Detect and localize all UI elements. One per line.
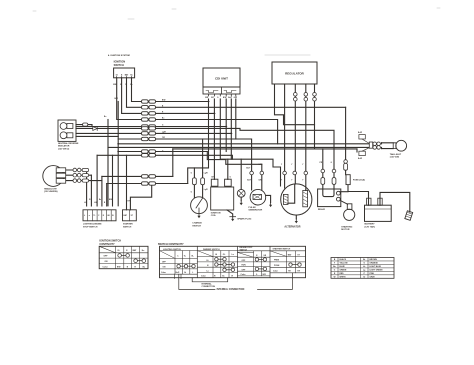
- svg-text:SWITCH CONTINUITY: SWITCH CONTINUITY: [158, 243, 184, 246]
- starting motor: [341, 204, 355, 231]
- svg-text:LIGHTING,ENGINE: LIGHTING,ENGINE: [83, 224, 102, 226]
- svg-text:Color: Color: [241, 274, 246, 276]
- svg-text:G: G: [230, 177, 232, 179]
- switch continuity table: [158, 243, 306, 278]
- svg-text:E: E: [256, 255, 258, 257]
- svg-text:W: W: [334, 276, 336, 278]
- svg-text:ST: ST: [297, 254, 300, 256]
- svg-text:Lg/R: Lg/R: [204, 189, 209, 191]
- svg-text:Bu: Bu: [99, 199, 101, 201]
- svg-text:Lo: Lo: [232, 254, 235, 256]
- svg-text:Y/R: Y/R: [288, 271, 292, 273]
- alternator: [281, 184, 312, 229]
- svg-text:TL: TL: [93, 215, 95, 217]
- svg-text:REGULATOR: REGULATOR: [285, 71, 305, 75]
- svg-text:SWITCH: SWITCH: [123, 227, 132, 229]
- fuse: [346, 175, 365, 185]
- wire regulator pin4: [305, 84, 307, 190]
- svg-text:Ho: Ho: [142, 250, 145, 252]
- svg-text:RELAY: RELAY: [318, 208, 326, 211]
- coil ground arrow: [231, 217, 234, 222]
- wire row9: [97, 155, 280, 186]
- svg-text:G: G: [256, 274, 258, 276]
- svg-text:PUSH: PUSH: [274, 265, 280, 267]
- svg-text:C: C: [98, 215, 100, 217]
- svg-text:G/W: G/W: [234, 97, 238, 99]
- diode symbol: [93, 127, 97, 131]
- svg-text:B/W: B/W: [113, 84, 117, 86]
- svg-text:Y: Y: [281, 164, 283, 166]
- wire regulator pin2: [284, 84, 286, 188]
- wire headlight lo: [64, 174, 91, 176]
- relay lead connectors: [321, 178, 336, 185]
- svg-text:PULSE: PULSE: [248, 207, 256, 209]
- svg-text:G: G: [191, 173, 193, 175]
- svg-text:B/W: B/W: [109, 199, 113, 201]
- svg-text:E: E: [103, 215, 105, 217]
- svg-text:N: N: [207, 265, 209, 267]
- svg-text:Bu/Y: Bu/Y: [246, 168, 251, 170]
- svg-text:ST: ST: [131, 215, 134, 217]
- wire pulse drop2: [261, 164, 263, 190]
- spark plug label: [237, 217, 251, 220]
- wire CDI pin5: [230, 99, 232, 159]
- svg-text:Gr: Gr: [363, 276, 365, 278]
- svg-text:Color: Color: [161, 272, 166, 274]
- svg-text:HE: HE: [108, 215, 110, 217]
- svg-text:Bu: Bu: [104, 116, 106, 118]
- wire regulator pin5: [314, 84, 316, 149]
- wire colour labels: [104, 98, 167, 152]
- ignition coil: [211, 177, 234, 218]
- svg-text:B/W: B/W: [117, 266, 121, 268]
- svg-text:Br: Br: [184, 272, 186, 274]
- internal connection bracket small: [175, 274, 228, 288]
- wire CDI pin2: [213, 99, 215, 179]
- wire vert x172.8: [172, 149, 174, 177]
- svg-text:G: G: [331, 162, 333, 164]
- svg-text:BROWN: BROWN: [370, 259, 378, 261]
- svg-text:a: a: [89, 215, 91, 217]
- svg-text:R: R: [135, 266, 137, 268]
- svg-text:CONNECTION: CONNECTION: [202, 286, 216, 288]
- svg-text:CHANGE: CHANGE: [192, 221, 202, 224]
- starter cable connector: [405, 211, 413, 221]
- wire taillight feeds: [357, 143, 382, 152]
- svg-text:STARTER: STARTER: [123, 223, 133, 226]
- wire row7 to CDI pin6: [118, 139, 251, 190]
- svg-text:B/W: B/W: [263, 274, 267, 276]
- wire CDI pin4: [225, 99, 227, 152]
- svg-text:SWITCH: SWITCH: [114, 63, 124, 67]
- svg-text:Hi: Hi: [215, 254, 217, 256]
- svg-text:Ho: Ho: [130, 74, 133, 76]
- svg-text:YELLOW: YELLOW: [340, 263, 348, 265]
- svg-text:C: C: [177, 255, 179, 257]
- svg-text:INTERNAL CONNECTION: INTERNAL CONNECTION: [217, 288, 245, 291]
- wire indicator row 128: [76, 128, 334, 189]
- svg-text:(12V 3W×2): (12V 3W×2): [58, 147, 69, 150]
- regulator pin connectors: [294, 93, 317, 101]
- svg-text:BAT: BAT: [124, 214, 128, 217]
- battery: [365, 198, 392, 228]
- wire coil right pin: [227, 159, 229, 179]
- svg-text:Bu: Bu: [222, 276, 224, 278]
- svg-text:Bu: Bu: [143, 266, 145, 268]
- svg-text:TL: TL: [184, 255, 187, 257]
- wire battery terminal right: [379, 198, 381, 205]
- wire CDI pin1: [194, 99, 208, 168]
- wire fuse junction left: [340, 191, 348, 193]
- mid bullet connectors: [246, 160, 347, 182]
- wire starter sw riser: [130, 184, 151, 210]
- svg-text:BLACK: BLACK: [340, 258, 347, 261]
- wire regulator pin3: [294, 84, 296, 184]
- wire indicator row5: [76, 126, 226, 128]
- wire colour legend table: [331, 258, 394, 279]
- svg-text:W: W: [89, 199, 91, 201]
- svg-text:TAILLIGHT: TAILLIGHT: [390, 153, 402, 156]
- svg-text:BLUE: BLUE: [340, 266, 346, 268]
- headlight: [43, 166, 66, 194]
- svg-text:RUN: RUN: [242, 265, 247, 267]
- wire indicator row5b: [76, 123, 92, 127]
- svg-text:Bu: Bu: [130, 84, 132, 86]
- svg-text:Lo: Lo: [207, 270, 210, 272]
- relay: [318, 189, 348, 211]
- svg-text:HEADLIGHT: HEADLIGHT: [44, 187, 57, 190]
- wire taillight bus lower: [108, 146, 369, 148]
- svg-text:Bu: Bu: [162, 118, 164, 120]
- svg-text:OFF: OFF: [104, 256, 109, 258]
- svg-text:B/W: B/W: [115, 98, 119, 100]
- wire relay coil feed1: [322, 149, 324, 189]
- svg-text:OFF: OFF: [162, 261, 167, 263]
- neutral reverse indicator lamps: [58, 120, 79, 150]
- svg-text:G: G: [217, 97, 219, 99]
- wire indicator row6: [76, 132, 231, 134]
- svg-text:BAT: BAT: [133, 249, 138, 252]
- internal connection bracket large: [179, 273, 293, 291]
- svg-text:B/W: B/W: [223, 97, 227, 99]
- wire headlight hi: [64, 169, 87, 171]
- svg-text:GRAY: GRAY: [370, 275, 376, 278]
- svg-text:E: E: [126, 250, 128, 252]
- svg-text:SWITCH: SWITCH: [240, 249, 248, 251]
- wire regulator pin1: [275, 84, 315, 125]
- wire ignition IG to bus row1: [132, 78, 209, 102]
- taillight: [382, 140, 407, 158]
- svg-text:IG: IG: [118, 250, 121, 252]
- svg-text:BATTERY: BATTERY: [365, 223, 376, 226]
- svg-text:Bu/R: Bu/R: [176, 272, 181, 274]
- svg-text:Hi: Hi: [207, 260, 209, 262]
- change switch ground: [197, 214, 200, 219]
- lighting engine stop switch: [83, 199, 116, 229]
- svg-text:Y: Y: [302, 180, 304, 182]
- svg-text:Y: Y: [291, 180, 293, 182]
- svg-text:FUSE (15A): FUSE (15A): [353, 179, 365, 182]
- junction dots: [118, 101, 233, 152]
- svg-text:INDICATOR: INDICATOR: [58, 145, 70, 148]
- wire ignition E to long bus row2: [127, 78, 346, 108]
- svg-text:STOP SWITCH: STOP SWITCH: [83, 227, 98, 229]
- svg-text:GENERATOR: GENERATOR: [248, 209, 262, 212]
- svg-text:GREEN: GREEN: [340, 270, 347, 272]
- ignition switch S1: [113, 60, 134, 86]
- change switch: [191, 197, 208, 228]
- wire taillight bus upper: [118, 143, 369, 145]
- svg-text:OL: OL: [223, 254, 226, 256]
- svg-text:Br/W: Br/W: [358, 158, 362, 160]
- svg-text:Color: Color: [103, 266, 108, 268]
- wire indicator row7: [76, 135, 118, 137]
- svg-text:Bu/Y: Bu/Y: [228, 97, 233, 99]
- svg-text:B: B: [127, 266, 129, 268]
- svg-text:G/W: G/W: [258, 180, 262, 182]
- ignition switch continuity table: [99, 240, 148, 269]
- svg-text:Y: Y: [302, 164, 304, 166]
- svg-text:CDI UNIT: CDI UNIT: [215, 76, 228, 80]
- svg-text:ALTERNATOR: ALTERNATOR: [284, 226, 300, 229]
- wire CDI pin6: [235, 99, 237, 139]
- svg-text:OL: OL: [191, 255, 194, 257]
- svg-text:Y/R: Y/R: [297, 271, 301, 273]
- svg-text:Br/W: Br/W: [358, 132, 362, 134]
- svg-text:MOTOR: MOTOR: [341, 229, 350, 231]
- svg-text:ON: ON: [105, 261, 109, 263]
- scan marks: [33, 8, 440, 57]
- ignition coil ground lead: [227, 210, 236, 217]
- wire row conn176: [102, 175, 173, 177]
- wire switch risers: [87, 155, 113, 206]
- svg-text:STARTER SWITCH: STARTER SWITCH: [273, 247, 291, 250]
- wire change sw right: [202, 139, 204, 198]
- svg-text:B: B: [104, 202, 106, 204]
- svg-text:E: E: [121, 74, 123, 76]
- svg-text:4. IGNITION SYSTEM: 4. IGNITION SYSTEM: [108, 54, 130, 57]
- svg-text:G/W: G/W: [258, 164, 262, 166]
- svg-text:Lg/R: Lg/R: [204, 173, 209, 175]
- spark plug ground: [240, 201, 243, 206]
- wire pulse branch: [207, 152, 261, 165]
- wire ignition Ho to bus row4: [117, 78, 278, 144]
- wire fuse to junction: [348, 185, 369, 206]
- svg-text:PINK: PINK: [370, 273, 375, 275]
- svg-text:L: L: [84, 215, 86, 217]
- svg-text:Y: Y: [281, 180, 283, 182]
- wire branch down lighting switch: [107, 120, 109, 206]
- pulse generator: [248, 189, 270, 211]
- svg-text:Br: Br: [363, 259, 365, 261]
- wire third light line: [173, 148, 357, 150]
- taillight connectors: [358, 132, 380, 160]
- svg-text:COIL: COIL: [211, 215, 217, 217]
- svg-text:B/W: B/W: [162, 100, 166, 102]
- headlight connectors: [73, 168, 89, 182]
- svg-text:Color: Color: [201, 276, 206, 278]
- svg-text:L: L: [192, 272, 193, 274]
- svg-text:RED: RED: [340, 273, 345, 275]
- spark plug: [237, 159, 245, 201]
- starter switch: [123, 201, 137, 229]
- svg-text:LIGHT GREEN: LIGHT GREEN: [370, 270, 384, 272]
- svg-text:W: W: [231, 276, 233, 278]
- svg-text:BAT: BAT: [125, 73, 129, 76]
- svg-text:STARTING: STARTING: [341, 225, 352, 228]
- wire fuse drop: [345, 107, 347, 174]
- svg-text:CONTINUITY: CONTINUITY: [99, 243, 115, 246]
- change switch connectors: [191, 173, 209, 194]
- svg-text:HE: HE: [264, 255, 267, 257]
- wire row8 pulse feed: [118, 151, 207, 153]
- svg-text:ORANGE: ORANGE: [370, 262, 379, 265]
- svg-text:SWITCH: SWITCH: [192, 225, 201, 227]
- svg-text:B: B: [112, 215, 114, 217]
- wire vert x118: [117, 102, 119, 206]
- regulator: [272, 62, 317, 84]
- svg-text:FREE: FREE: [274, 260, 280, 262]
- svg-text:W: W: [214, 276, 216, 278]
- svg-text:Color: Color: [273, 270, 278, 272]
- svg-text:G: G: [191, 191, 193, 193]
- svg-text:SPARK PLUG: SPARK PLUG: [237, 217, 251, 220]
- wire row conn183: [107, 183, 188, 185]
- wire starter sw riser2: [126, 155, 128, 210]
- svg-text:(12V 7AH): (12V 7AH): [365, 226, 376, 229]
- svg-text:Y: Y: [291, 164, 293, 166]
- wire CDI pin3: [219, 99, 221, 159]
- svg-text:BAT: BAT: [288, 253, 292, 256]
- svg-text:NEUTRAL REVERSE: NEUTRAL REVERSE: [58, 142, 79, 145]
- svg-text:ON: ON: [163, 267, 166, 269]
- wire change sw left riser: [188, 168, 195, 198]
- alternator ground: [295, 215, 298, 223]
- svg-text:(12V 45/45W): (12V 45/45W): [44, 190, 58, 193]
- svg-text:WHITE: WHITE: [340, 276, 347, 278]
- wire battery to connector: [380, 192, 410, 212]
- CDI unit: [203, 68, 240, 99]
- wire ignition BAT to bus row3: [122, 78, 215, 114]
- wire harness connectors: [142, 100, 156, 185]
- svg-text:IGNITION: IGNITION: [211, 212, 221, 214]
- svg-text:LIGHT BLUE: LIGHT BLUE: [370, 266, 382, 268]
- wire headlight gnd: [64, 180, 102, 182]
- svg-text:(12V 3W): (12V 3W): [390, 157, 400, 159]
- pulse generator ground: [269, 203, 272, 208]
